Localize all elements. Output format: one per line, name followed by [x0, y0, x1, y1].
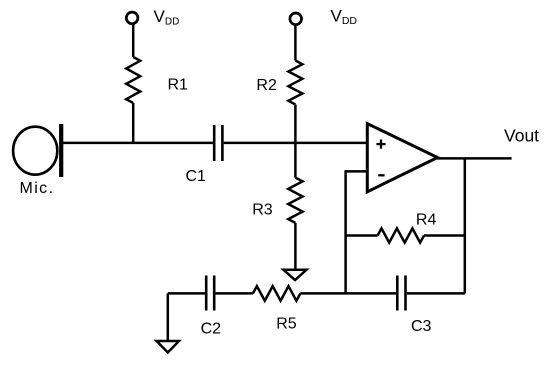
resistor R5: [253, 286, 301, 301]
svg-text:C2: C2: [201, 321, 222, 338]
power VDD terminal circle (left): [126, 12, 138, 24]
wire R4 row left: [346, 234, 378, 237]
wire VDD to R1: [132, 24, 135, 57]
wire R4 row right: [424, 234, 465, 237]
microphone Mic. body circle: [13, 127, 57, 175]
capacitor C3: [397, 276, 405, 311]
wire op-amp output: [437, 157, 512, 160]
wire mic to C1: [61, 142, 213, 145]
svg-text:C3: C3: [411, 318, 432, 335]
microphone Mic. diaphragm bar: [59, 124, 63, 177]
wire feedback right vertical: [464, 158, 467, 293]
wire C2 to R5: [216, 292, 253, 295]
wire VDD to R2: [294, 25, 297, 61]
wire node to R3: [294, 143, 297, 178]
capacitor C1: [214, 125, 222, 161]
capacitor C2: [206, 276, 214, 311]
svg-text:VDD: VDD: [154, 7, 180, 28]
svg-text:R5: R5: [276, 316, 297, 333]
wire C1 to op-amp plus input: [224, 142, 368, 145]
resistor R4: [378, 228, 424, 242]
wire minus input stub: [346, 170, 368, 173]
svg-text:VDD: VDD: [331, 7, 358, 28]
wire feedback left vertical: [344, 170, 347, 293]
resistor R3: [288, 178, 302, 223]
wiper arrow onto R5: [284, 270, 307, 280]
wire R2 to main node: [294, 105, 297, 143]
svg-text:R3: R3: [252, 202, 273, 219]
wire R5 to C3: [300, 292, 396, 295]
svg-text:Mic.: Mic.: [20, 180, 55, 197]
resistor R2: [288, 61, 302, 105]
svg-text:C1: C1: [186, 168, 207, 185]
op-amp plus sign: [376, 140, 385, 149]
ground symbol (bottom left): [157, 341, 179, 353]
wire C2 branch down to ground: [167, 293, 170, 340]
resistor R1: [126, 57, 140, 103]
op-amp U1: [367, 124, 437, 192]
power VDD terminal circle (right): [290, 13, 302, 25]
wire C3 to right vertical: [407, 292, 465, 295]
op-amp minus sign: [378, 174, 384, 176]
svg-text:R2: R2: [256, 77, 277, 94]
svg-text:R1: R1: [168, 77, 189, 94]
wire R1 to main node: [132, 103, 135, 143]
svg-text:Vout: Vout: [504, 126, 539, 146]
wire ground-stub left horizontal: [168, 292, 205, 295]
wire R3 to wiper arrow: [294, 223, 297, 269]
svg-text:R4: R4: [416, 211, 437, 228]
